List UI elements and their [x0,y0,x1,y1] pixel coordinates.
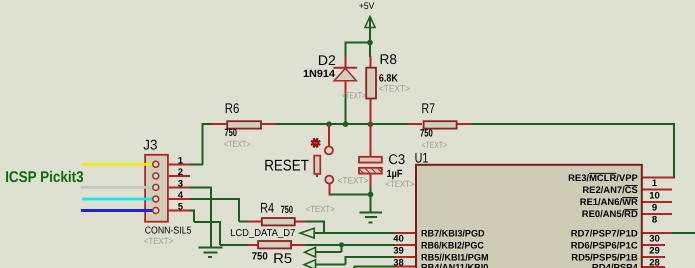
svg-text:1: 1 [178,155,184,166]
svg-text:D2: D2 [318,52,336,68]
svg-text:<TEXT>: <TEXT> [224,139,251,149]
svg-text:R5: R5 [273,250,292,266]
svg-text:R7: R7 [422,100,436,116]
svg-text:RE2/AN7/CS: RE2/AN7/CS [582,185,637,196]
svg-text:28: 28 [649,258,660,268]
svg-text:10: 10 [649,190,660,201]
svg-text:RB6/KBI2/PGC: RB6/KBI2/PGC [421,240,484,251]
svg-text:+5V: +5V [359,1,375,12]
svg-text:RD4/PSP4: RD4/PSP4 [592,262,639,268]
svg-text:RB4/AN11/KBI0: RB4/AN11/KBI0 [421,262,488,268]
svg-text:8: 8 [652,215,657,226]
svg-text:RD6/PSP6/P1C: RD6/PSP6/P1C [571,240,638,251]
svg-text:<TEXT>: <TEXT> [422,140,448,150]
svg-text:750: 750 [420,127,433,139]
svg-text:<TEXT>: <TEXT> [144,236,173,246]
svg-text:RE1/AN6/WR: RE1/AN6/WR [580,197,638,208]
svg-text:750: 750 [224,127,237,139]
svg-text:750: 750 [252,251,268,263]
svg-text:3: 3 [178,178,183,189]
svg-text:R8: R8 [380,51,398,67]
svg-text:2: 2 [178,167,183,178]
svg-text:1N914: 1N914 [303,68,335,80]
svg-text:LCD_DATA_D7: LCD_DATA_D7 [230,228,296,239]
svg-text:<TEXT>: <TEXT> [385,179,414,189]
svg-text:38: 38 [393,258,404,268]
svg-text:40: 40 [393,234,404,245]
svg-text:<TEXT>: <TEXT> [306,204,335,214]
svg-text:29: 29 [649,246,660,257]
svg-text:J3: J3 [143,137,157,153]
svg-text:RE3/MCLR/VPP: RE3/MCLR/VPP [568,173,638,184]
svg-text:30: 30 [649,234,660,245]
svg-text:RESET: RESET [264,157,309,174]
svg-text:4: 4 [178,190,184,201]
svg-text:RE0/AN5/RD: RE0/AN5/RD [582,209,638,220]
svg-text:<TEXT>: <TEXT> [379,83,410,93]
svg-text:5: 5 [178,202,184,213]
svg-text:ICSP Pickit3: ICSP Pickit3 [5,169,84,186]
svg-text:<TEXT>: <TEXT> [342,90,366,100]
svg-text:R6: R6 [225,100,240,116]
svg-text:C3: C3 [388,151,405,167]
svg-text:<TEXT>: <TEXT> [338,176,369,186]
svg-text:750: 750 [281,204,293,216]
svg-text:R4: R4 [260,200,274,216]
svg-text:RD7/PSP7/P1D: RD7/PSP7/P1D [571,228,638,239]
svg-text:RB7/KBI3/PGD: RB7/KBI3/PGD [421,228,485,239]
svg-text:39: 39 [393,246,404,257]
svg-text:9: 9 [652,202,657,213]
svg-text:1: 1 [652,178,658,189]
svg-text:U1: U1 [415,149,429,165]
